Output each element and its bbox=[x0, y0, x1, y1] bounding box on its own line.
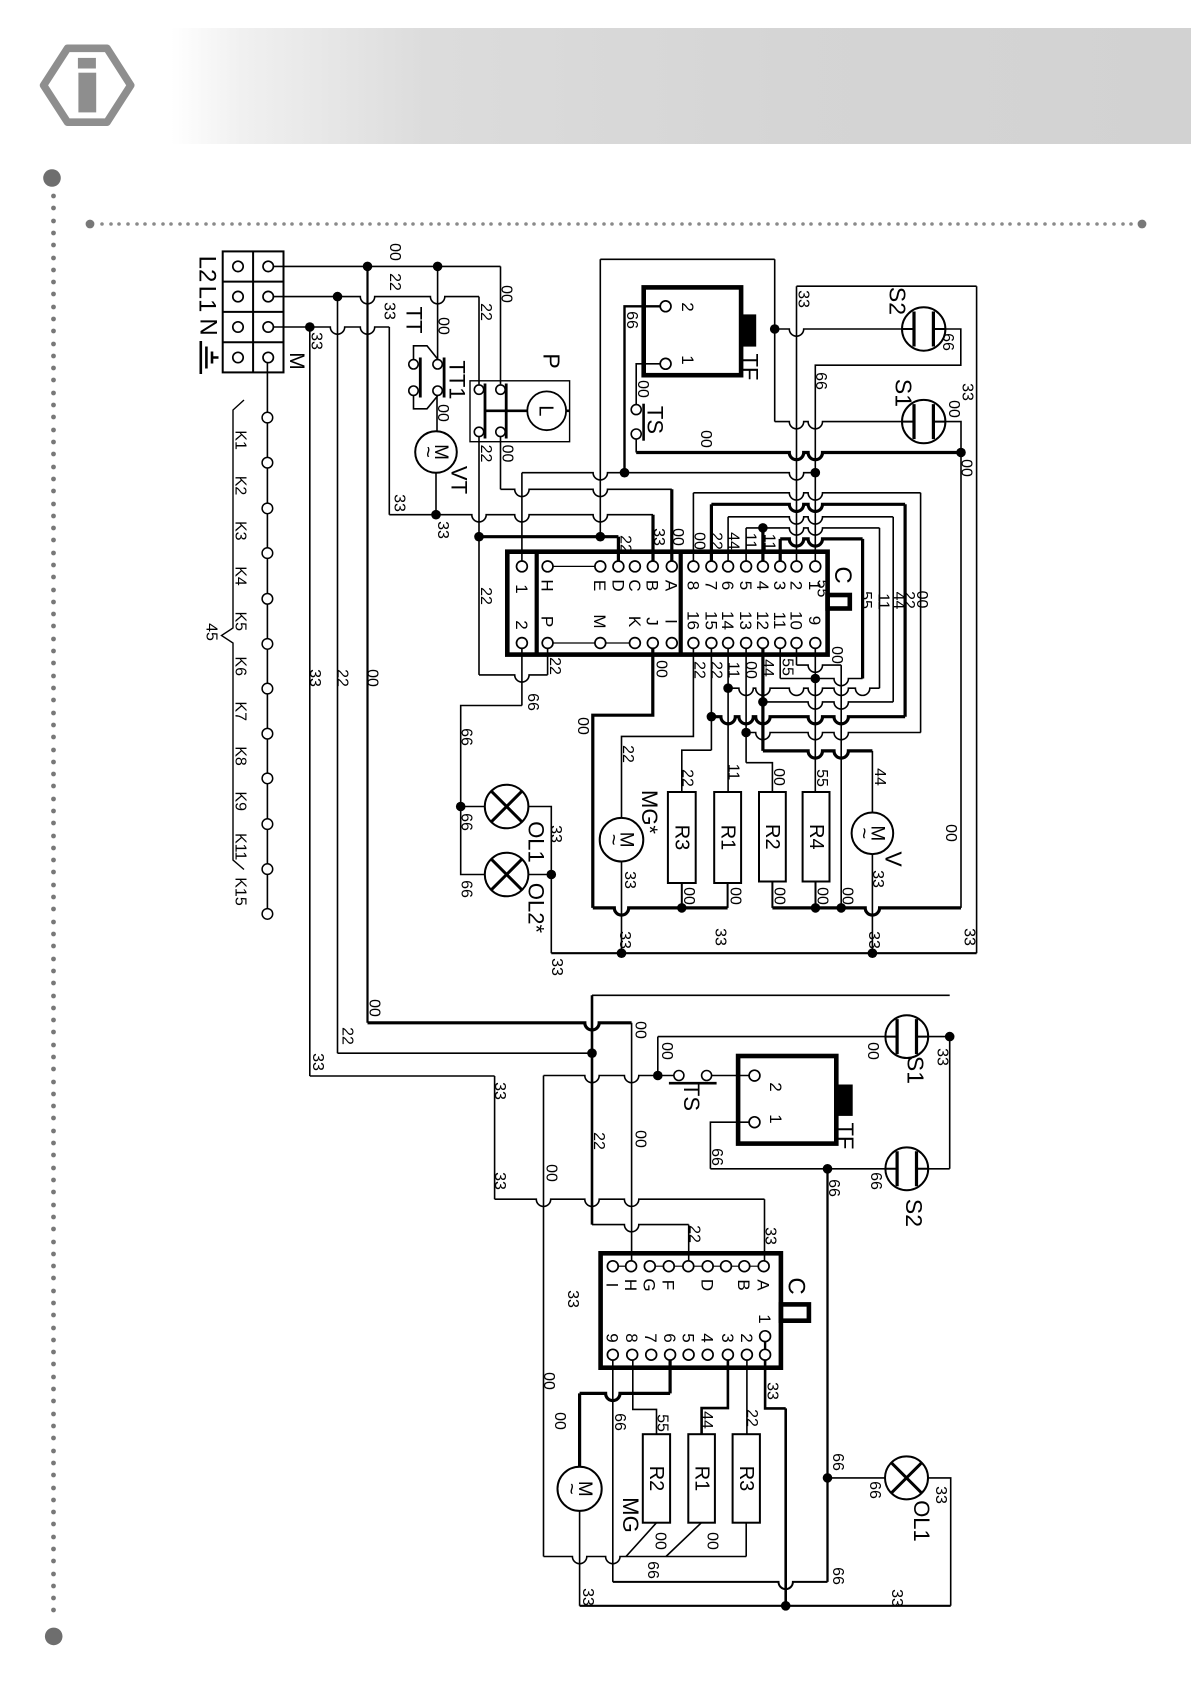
svg-text:55: 55 bbox=[857, 591, 874, 609]
wire pin 2 R3 22 bbox=[746, 1360, 748, 1434]
wire pin 10 00 bbox=[796, 648, 798, 665]
svg-text:C: C bbox=[782, 1277, 809, 1294]
wire 33 right vertical bbox=[976, 286, 978, 953]
svg-text:R4: R4 bbox=[805, 824, 827, 850]
component P pump block bbox=[470, 381, 570, 442]
wire pin 1 33 bbox=[765, 1360, 786, 1408]
svg-text:11: 11 bbox=[725, 764, 742, 781]
connector pin lower 2 bbox=[742, 1349, 753, 1360]
svg-text:66: 66 bbox=[867, 1172, 884, 1190]
svg-text:K: K bbox=[625, 616, 644, 628]
svg-text:66: 66 bbox=[939, 333, 956, 351]
wire pin 6 MG 00 thick bbox=[668, 1360, 671, 1393]
svg-text:2: 2 bbox=[737, 1333, 756, 1342]
svg-text:66: 66 bbox=[829, 1567, 846, 1585]
connector pin lower 9 bbox=[607, 1349, 618, 1360]
pressure switch S1 bbox=[902, 400, 945, 443]
connector C lower block bbox=[601, 1253, 781, 1367]
motor MG lower bbox=[558, 1467, 602, 1511]
svg-text:6: 6 bbox=[718, 581, 737, 590]
svg-text:00: 00 bbox=[632, 1130, 649, 1148]
svg-text:22: 22 bbox=[708, 532, 725, 550]
junction dot OL1 66 bbox=[823, 1473, 833, 1483]
switch TT1 bridge top bbox=[414, 346, 438, 360]
svg-text:00: 00 bbox=[658, 1042, 675, 1060]
svg-text:11: 11 bbox=[761, 534, 778, 551]
wire OL2 stub bbox=[528, 874, 551, 876]
wire OL1 stub lower bbox=[828, 1477, 886, 1479]
wire 33 jog lower bbox=[494, 1076, 496, 1199]
junction dot 00 vertical bbox=[363, 262, 373, 272]
svg-text:22: 22 bbox=[334, 669, 351, 687]
svg-text:K9: K9 bbox=[232, 791, 249, 811]
svg-text:66: 66 bbox=[644, 1561, 661, 1579]
wire 33 to pin A lower bbox=[495, 1199, 765, 1206]
svg-text:J: J bbox=[643, 617, 662, 626]
connector pin 4 bbox=[758, 561, 769, 572]
lamp OL1 bbox=[485, 785, 529, 829]
wire 22 down to pin P bbox=[478, 537, 480, 675]
svg-text:A: A bbox=[754, 1279, 773, 1291]
svg-text:44: 44 bbox=[698, 1411, 715, 1429]
wire 33 long vertical bbox=[309, 327, 311, 1076]
motor MG* upper bbox=[600, 818, 644, 862]
wire 44 rail upper bbox=[763, 702, 893, 709]
left dotted border bbox=[51, 194, 56, 1613]
svg-text:00: 00 bbox=[543, 1164, 560, 1182]
svg-text:55: 55 bbox=[814, 580, 831, 598]
junction dot R3 bbox=[677, 903, 687, 913]
svg-text:22: 22 bbox=[679, 769, 696, 787]
wire pin 3 rail 55 bbox=[779, 539, 782, 562]
svg-text:00: 00 bbox=[942, 824, 959, 842]
svg-text:9: 9 bbox=[603, 1333, 622, 1342]
resistor R1 upper bbox=[714, 792, 741, 883]
svg-text:00: 00 bbox=[669, 528, 686, 546]
svg-text:33: 33 bbox=[547, 825, 564, 843]
connector pin lower D bbox=[702, 1261, 713, 1272]
svg-text:00: 00 bbox=[435, 317, 452, 335]
connector pin lower A bbox=[758, 1261, 769, 1272]
connector pin lower F bbox=[663, 1261, 674, 1272]
svg-text:66: 66 bbox=[829, 1453, 846, 1471]
wire TS 00 thick rail bbox=[636, 453, 961, 460]
svg-text:TF: TF bbox=[833, 1123, 858, 1150]
wire pin 3 R1 44 bbox=[702, 1360, 728, 1434]
wire TS loop top bbox=[600, 258, 774, 260]
wire pins 4 5 rail 11 bbox=[745, 528, 747, 562]
resistor R4 upper bbox=[803, 792, 830, 882]
wire pin 15 vertical bbox=[710, 648, 712, 750]
svg-text:K15: K15 bbox=[232, 877, 249, 906]
svg-text:7: 7 bbox=[641, 1333, 660, 1342]
wire pin 8 rail 00 bbox=[692, 493, 694, 562]
svg-text:33: 33 bbox=[764, 1382, 781, 1400]
svg-text:00: 00 bbox=[498, 285, 515, 303]
svg-text:13: 13 bbox=[736, 611, 755, 630]
wire R4 top 55 bbox=[814, 648, 816, 792]
connector pin 7 bbox=[706, 561, 717, 572]
connector C tab bbox=[828, 595, 850, 609]
junction dot rail 22 bbox=[707, 712, 717, 722]
wire 00 feed lower bbox=[368, 1023, 632, 1030]
P internal link bbox=[485, 409, 570, 412]
wire OL1 right 33 bbox=[928, 1478, 951, 1606]
connector pin lower 5 bbox=[683, 1349, 694, 1360]
svg-text:D: D bbox=[698, 1279, 717, 1291]
junction dot MG 33 bbox=[617, 948, 627, 958]
svg-text:55: 55 bbox=[813, 769, 830, 787]
svg-text:S2: S2 bbox=[901, 1199, 927, 1227]
connector pin 10 bbox=[791, 638, 802, 649]
junction dot 33 vertical bbox=[305, 322, 315, 332]
P plates bbox=[485, 384, 506, 439]
svg-text:22: 22 bbox=[743, 1409, 760, 1427]
junction dot OL2 bbox=[547, 870, 557, 880]
wire R3 bottom bbox=[745, 1523, 747, 1557]
svg-text:00: 00 bbox=[551, 1412, 568, 1430]
connector pin C bbox=[630, 561, 641, 572]
P terminals bbox=[474, 385, 483, 394]
svg-text:22: 22 bbox=[619, 745, 636, 763]
svg-text:A: A bbox=[662, 580, 681, 592]
wire pin J 00 thick bbox=[593, 648, 653, 908]
svg-text:TT: TT bbox=[402, 307, 427, 334]
svg-text:K4: K4 bbox=[232, 566, 249, 586]
connector pin B bbox=[647, 561, 658, 572]
wire 00 bus right bbox=[772, 908, 961, 915]
svg-text:45: 45 bbox=[203, 623, 220, 641]
junction dot S1 33 bbox=[945, 1032, 955, 1042]
connector pin 9 bbox=[810, 638, 821, 649]
junction dot TS 00 bbox=[956, 448, 966, 458]
connector C lower tab bbox=[781, 1304, 809, 1320]
wire S2 66 return bbox=[815, 329, 961, 561]
svg-text:66: 66 bbox=[524, 693, 541, 711]
horizontal dotted rule bbox=[86, 220, 95, 229]
svg-text:R2: R2 bbox=[761, 824, 783, 850]
svg-text:7: 7 bbox=[701, 581, 720, 590]
svg-text:33: 33 bbox=[616, 931, 633, 949]
svg-text:MG*: MG* bbox=[637, 790, 662, 834]
svg-text:K11: K11 bbox=[232, 833, 249, 860]
svg-text:44: 44 bbox=[725, 532, 742, 550]
connector pin 1 bbox=[810, 561, 821, 572]
svg-text:66: 66 bbox=[866, 1481, 883, 1499]
wire 66 dropper lower bbox=[826, 1169, 828, 1582]
wire 33 top loop bbox=[797, 285, 977, 287]
svg-text:1: 1 bbox=[766, 1114, 785, 1123]
wire 66 rail lower bbox=[710, 1168, 885, 1170]
bottom left anchor dot bbox=[45, 1628, 63, 1646]
wire MG bottom 33 bbox=[621, 862, 623, 954]
connector pin lower B bbox=[739, 1261, 750, 1272]
svg-text:15: 15 bbox=[701, 611, 720, 630]
svg-text:00: 00 bbox=[434, 404, 451, 422]
motor V fan bbox=[852, 813, 894, 855]
svg-text:00: 00 bbox=[499, 445, 516, 463]
junction dot VT 33 bbox=[431, 510, 441, 520]
connector pin 8 bbox=[688, 561, 699, 572]
svg-text:33: 33 bbox=[491, 1172, 508, 1190]
connector pin 6 bbox=[723, 561, 734, 572]
svg-text:M: M bbox=[285, 352, 308, 370]
svg-text:TF: TF bbox=[738, 354, 763, 381]
svg-text:F: F bbox=[659, 1280, 678, 1290]
connector pin lower 1 bbox=[760, 1331, 771, 1342]
wire 00 long vertical bbox=[366, 266, 368, 1022]
junction dot R4 00 bbox=[811, 903, 821, 913]
wire 33 bus lower bbox=[580, 1605, 951, 1607]
lamp OL1 lower bbox=[885, 1456, 928, 1499]
wire 00 to pin H lower bbox=[631, 1023, 633, 1261]
connector pin P bbox=[542, 638, 553, 649]
connector pin 12 bbox=[758, 638, 769, 649]
svg-text:16: 16 bbox=[683, 611, 702, 630]
svg-text:2: 2 bbox=[678, 302, 697, 311]
connector pin lower 3 bbox=[723, 1349, 734, 1360]
svg-text:22: 22 bbox=[708, 661, 725, 679]
junction dot 66 lower bbox=[823, 1164, 833, 1174]
wire TF pin1 00 bbox=[636, 364, 660, 405]
svg-text:S1: S1 bbox=[891, 379, 917, 407]
wire 55 rail bbox=[780, 679, 862, 686]
svg-text:00: 00 bbox=[770, 768, 787, 786]
wire S1 feed bbox=[775, 422, 903, 429]
svg-text:K7: K7 bbox=[232, 701, 249, 721]
wire 33 rail to pin B bbox=[389, 515, 653, 522]
svg-text:33: 33 bbox=[579, 1588, 596, 1606]
pressure switch S1 lower bbox=[885, 1015, 928, 1058]
wire TS loop vertical bbox=[599, 259, 601, 536]
svg-text:00: 00 bbox=[727, 887, 744, 905]
junction dot V 33 bbox=[868, 948, 878, 958]
component TF door interlock bbox=[644, 287, 741, 375]
svg-text:M: M bbox=[590, 614, 609, 628]
wire S1-S2 vertical bbox=[949, 1037, 951, 1169]
wire R4 bottom bbox=[815, 882, 817, 908]
junction dot OL1 bbox=[456, 802, 466, 812]
connector pin lower x bbox=[683, 1261, 694, 1272]
wire S1 feed lower bbox=[657, 1037, 659, 1076]
junction dot 33 lower bbox=[781, 1601, 791, 1611]
svg-text:G: G bbox=[640, 1278, 659, 1291]
svg-text:00: 00 bbox=[814, 887, 831, 905]
svg-text:66: 66 bbox=[458, 880, 475, 898]
connector pins left section bbox=[517, 561, 528, 572]
svg-text:33: 33 bbox=[434, 521, 451, 539]
svg-text:33: 33 bbox=[865, 931, 882, 949]
svg-text:22: 22 bbox=[339, 1027, 356, 1045]
svg-text:R3: R3 bbox=[671, 825, 693, 851]
wire pin P drop bbox=[547, 648, 549, 675]
switch TT1 feed wire bbox=[437, 266, 439, 359]
svg-text:33: 33 bbox=[762, 1227, 779, 1245]
connector pin lower I bbox=[607, 1261, 618, 1272]
svg-text:S2: S2 bbox=[885, 287, 911, 315]
switch TT1 bridge bottom bbox=[414, 396, 438, 409]
svg-text:22: 22 bbox=[590, 1132, 607, 1150]
ground symbol PE bbox=[201, 341, 219, 374]
svg-text:00: 00 bbox=[958, 459, 975, 477]
pressure switch S2 bbox=[902, 307, 945, 350]
svg-text:N: N bbox=[194, 318, 221, 335]
thermostat TS upper bbox=[631, 405, 641, 415]
svg-text:L1: L1 bbox=[193, 286, 220, 313]
connector pin 5 bbox=[741, 561, 752, 572]
svg-text:6: 6 bbox=[660, 1333, 679, 1342]
wire 00 down lower bbox=[543, 1076, 545, 1557]
svg-text:55: 55 bbox=[779, 658, 796, 676]
svg-text:66: 66 bbox=[458, 728, 475, 746]
connector pin 2 bbox=[791, 561, 802, 572]
wire 44 thick rail to V bbox=[763, 751, 873, 758]
junction dot S2 feed bbox=[770, 324, 780, 334]
wire TS to TF lower bbox=[712, 1075, 750, 1077]
svg-text:00: 00 bbox=[366, 999, 383, 1017]
wire 66 to lamps bbox=[461, 706, 522, 875]
wire pin 9 66 lower bbox=[612, 1360, 614, 1582]
svg-text:D: D bbox=[608, 579, 627, 591]
svg-text:4: 4 bbox=[753, 581, 772, 590]
wire R1 diagonal bbox=[666, 1523, 701, 1557]
svg-text:K6: K6 bbox=[232, 656, 249, 676]
svg-text:00: 00 bbox=[680, 887, 697, 905]
wire 00 bottom rail lower bbox=[544, 1557, 747, 1564]
connector pin 11 bbox=[775, 638, 786, 649]
svg-text:33: 33 bbox=[959, 383, 976, 401]
connector pin lower G bbox=[644, 1261, 655, 1272]
svg-text:33: 33 bbox=[888, 1589, 905, 1607]
svg-text:K3: K3 bbox=[232, 521, 249, 541]
svg-text:33: 33 bbox=[650, 528, 667, 546]
wire VT bottom bbox=[435, 473, 437, 515]
wire L2 00 feed bbox=[273, 265, 500, 267]
svg-text:L: L bbox=[535, 405, 557, 416]
junction dot 22 vertical bbox=[333, 292, 343, 302]
wire 00 rail to pin A bbox=[501, 489, 672, 496]
svg-text:E: E bbox=[590, 580, 609, 591]
svg-text:33: 33 bbox=[934, 1048, 951, 1066]
svg-text:33: 33 bbox=[306, 669, 323, 687]
svg-text:1: 1 bbox=[755, 1314, 774, 1323]
wire N 33 feed bbox=[273, 327, 389, 334]
svg-text:L2: L2 bbox=[193, 256, 220, 283]
svg-text:22: 22 bbox=[477, 445, 494, 463]
svg-text:R1: R1 bbox=[717, 825, 739, 851]
svg-text:V: V bbox=[881, 851, 907, 867]
connector pin K bbox=[630, 638, 641, 649]
connector pin D bbox=[613, 561, 624, 572]
svg-text:44: 44 bbox=[871, 768, 888, 786]
connector pin 13 bbox=[741, 638, 752, 649]
wire R2 diagonal bbox=[626, 1523, 657, 1557]
connector pin lower 6 bbox=[665, 1349, 676, 1360]
resistor R2 upper bbox=[759, 792, 786, 882]
wire 00 bus left bbox=[593, 908, 728, 915]
svg-text:P: P bbox=[539, 353, 565, 368]
svg-text:P: P bbox=[538, 616, 557, 627]
svg-text:R1: R1 bbox=[690, 1466, 712, 1492]
svg-text:2: 2 bbox=[766, 1082, 785, 1091]
wire TF pin2 66 bbox=[625, 306, 661, 472]
wire 22 corner down to P bbox=[478, 297, 480, 385]
svg-text:K2: K2 bbox=[232, 476, 249, 496]
svg-text:14: 14 bbox=[718, 611, 737, 630]
svg-text:66: 66 bbox=[623, 311, 640, 329]
svg-text:66: 66 bbox=[708, 1148, 725, 1166]
wire pin 1 left drop bbox=[521, 473, 523, 562]
top left anchor dot bbox=[43, 169, 61, 187]
motor VT drain pump bbox=[415, 431, 457, 473]
svg-text:00: 00 bbox=[364, 669, 381, 687]
junction dot TT1 feed bbox=[433, 262, 443, 272]
wire V top bbox=[871, 751, 873, 813]
svg-text:S1: S1 bbox=[903, 1056, 929, 1084]
resistor R3 upper bbox=[668, 792, 696, 883]
svg-text:~: ~ bbox=[853, 827, 875, 839]
junction dot 66 rail bbox=[620, 468, 630, 478]
connector link P-K bbox=[553, 642, 630, 644]
wire 66 rail bbox=[522, 473, 815, 480]
junction dot pin E bbox=[596, 532, 606, 542]
connector pin lower 8 bbox=[627, 1349, 638, 1360]
svg-text:00: 00 bbox=[632, 1021, 649, 1039]
wire R3 bottom bbox=[681, 883, 683, 908]
wire pin 12 44 thick bbox=[761, 648, 764, 751]
svg-text:00: 00 bbox=[864, 1042, 881, 1060]
svg-text:33: 33 bbox=[381, 302, 398, 320]
svg-text:22: 22 bbox=[477, 303, 494, 321]
junction dot 66 bbox=[811, 468, 821, 478]
connector pin 3 bbox=[775, 561, 786, 572]
svg-text:33: 33 bbox=[712, 928, 729, 946]
svg-text:R3: R3 bbox=[735, 1466, 757, 1492]
wire pin 11 55 bbox=[779, 648, 781, 678]
junction dot TS lower bbox=[653, 1071, 663, 1081]
connector pin lower 4 bbox=[702, 1349, 713, 1360]
svg-text:22: 22 bbox=[386, 273, 403, 291]
wire MG bottom 33 lower bbox=[579, 1511, 581, 1606]
wire 33 down to VT rail bbox=[388, 327, 390, 515]
svg-text:00: 00 bbox=[691, 532, 708, 550]
connector pin J bbox=[647, 638, 658, 649]
svg-text:33: 33 bbox=[391, 494, 408, 512]
wire R3 top 22 bbox=[682, 750, 712, 792]
wire OL right side 33 bbox=[528, 807, 551, 954]
wire pin 7 rail 22 bbox=[710, 504, 713, 561]
svg-text:00: 00 bbox=[574, 717, 591, 735]
svg-text:00: 00 bbox=[704, 1532, 721, 1550]
svg-text:00: 00 bbox=[386, 243, 403, 261]
wire TT1 to VT 00 bbox=[436, 396, 438, 431]
wire 33 feed lower bbox=[310, 1075, 495, 1077]
junction dot 55 bbox=[811, 674, 821, 684]
connector link H-E bbox=[553, 565, 595, 567]
svg-text:C: C bbox=[829, 566, 856, 583]
junction dot rail 00 bbox=[741, 728, 751, 738]
svg-text:~: ~ bbox=[602, 834, 624, 846]
svg-text:22: 22 bbox=[477, 587, 494, 605]
svg-text:OL2*: OL2* bbox=[524, 883, 549, 934]
connector pin 15 bbox=[706, 638, 717, 649]
wire OL1 stub bbox=[461, 806, 485, 808]
bracket 45 program chain bbox=[222, 400, 245, 870]
wire pin D drop bbox=[617, 537, 620, 562]
connector pin H bbox=[542, 561, 553, 572]
connector pin A bbox=[666, 561, 677, 572]
wire 11 rail mid bbox=[728, 688, 879, 695]
